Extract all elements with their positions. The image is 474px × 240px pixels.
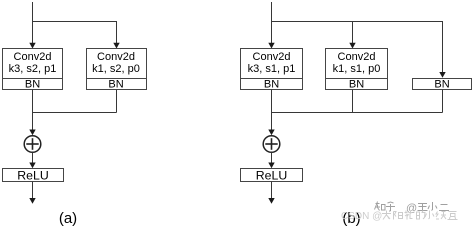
watermark csdn: 太阳花的小绿豆 <box>382 211 458 220</box>
box: ReLU (b) <box>241 169 303 183</box>
wire: left BN drop (a) <box>32 90 34 113</box>
svg-text:k3, s2, p1: k3, s2, p1 <box>9 63 57 75</box>
svg-text:Conv2d: Conv2d <box>253 51 291 63</box>
adder circle plus (b) <box>263 136 280 153</box>
box: Conv2d k1,s2,p0 + BN (a right) <box>87 49 147 91</box>
arrowhead into Conv2d k1 (b) <box>349 43 355 49</box>
box: Conv2d k3,s2,p1 + BN (a left) <box>3 49 63 91</box>
太 <box>382 211 391 220</box>
二 <box>439 205 449 211</box>
box: Conv2d k3,s1,p1 + BN (b left) <box>241 49 303 91</box>
wire: output (a) <box>32 182 34 200</box>
阳 <box>394 212 403 220</box>
adder circle plus (a) <box>24 136 41 153</box>
小 <box>428 202 437 211</box>
svg-text:BN: BN <box>434 79 449 91</box>
arrowhead output (b) <box>268 198 274 204</box>
svg-text:ReLU: ReLU <box>17 169 48 183</box>
svg-text:k1, s1, p0: k1, s1, p0 <box>333 63 381 75</box>
svg-text:Conv2d: Conv2d <box>97 51 135 63</box>
绿 <box>436 211 446 219</box>
wire: adder to ReLU (a) <box>32 153 34 165</box>
svg-text:Conv2d: Conv2d <box>14 51 52 63</box>
arrowhead into adder (a) <box>29 130 35 136</box>
arrowhead into Conv2d k1 (a) <box>113 43 119 49</box>
svg-text:k3, s1, p1: k3, s1, p1 <box>248 63 296 75</box>
arrowhead into Conv2d k3 (b) <box>268 43 274 49</box>
的 <box>417 211 426 220</box>
svg-text:ReLU: ReLU <box>256 169 287 183</box>
svg-text:BN: BN <box>264 79 279 91</box>
wire: input stem (b) <box>271 2 273 44</box>
wire: adder to ReLU (b) <box>271 153 273 165</box>
wire: identity BN drop (b) <box>442 90 444 113</box>
arrowhead into BN identity (b) <box>439 72 445 78</box>
王 <box>418 204 428 211</box>
svg-text:Conv2d: Conv2d <box>338 51 376 63</box>
豆 <box>448 212 458 220</box>
arrowhead into adder (b) <box>268 130 274 136</box>
wire: merge horizontal (a) <box>33 112 117 114</box>
wire: merge horizontal (b) <box>272 112 443 114</box>
svg-text:CSDN @: CSDN @ <box>341 211 382 222</box>
wire: input stem (a) <box>32 2 34 44</box>
box: BN identity (b right) <box>413 79 472 91</box>
svg-text:BN: BN <box>108 79 123 91</box>
label (b) <box>342 210 360 227</box>
知 <box>375 202 386 211</box>
乎 <box>386 202 395 211</box>
watermark zhihu at-sign <box>406 203 417 215</box>
wire: output (b) <box>271 182 273 200</box>
小 <box>425 211 434 220</box>
wire: into adder (a) <box>32 113 34 132</box>
arrowhead output (a) <box>29 198 35 204</box>
arrowhead into ReLU (b) <box>268 163 274 169</box>
花 <box>405 211 413 220</box>
svg-text:k1, s2, p0: k1, s2, p0 <box>92 63 140 75</box>
wire: branch drop to BN identity (b) <box>442 21 444 74</box>
box: ReLU (a) <box>3 169 64 183</box>
label (a) <box>59 210 77 227</box>
box: Conv2d k1,s1,p0 + BN (b middle) <box>326 49 388 91</box>
svg-text:BN: BN <box>25 79 40 91</box>
watermark csdn: CSDN @ <box>341 211 382 222</box>
arrowhead into ReLU (a) <box>29 163 35 169</box>
wire: branch drop to Conv2d k1 (b) <box>352 21 354 44</box>
wire: right BN drop (a) <box>116 90 118 113</box>
wire: branch horizontal (a) <box>33 21 117 23</box>
wire: branch horizontal (b) <box>272 21 443 23</box>
wire: left BN drop (b) <box>271 90 273 113</box>
wire: into adder (b) <box>271 113 273 132</box>
svg-text:(a): (a) <box>59 210 77 227</box>
wire: middle BN drop (b) <box>352 90 354 113</box>
arrowhead into Conv2d k3 (a) <box>29 43 35 49</box>
watermark zhihu: 知乎 @王小二 <box>375 202 450 212</box>
svg-text:BN: BN <box>349 79 364 91</box>
wire: branch drop to Conv2d k1 (a) <box>116 21 118 44</box>
